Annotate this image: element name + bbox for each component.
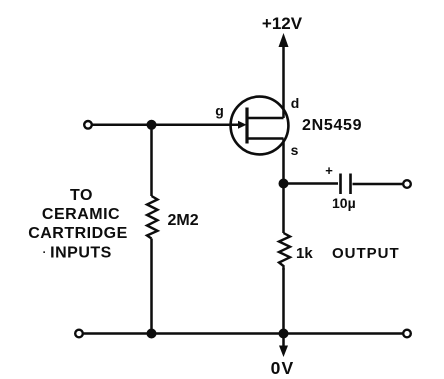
wire gate input (93, 124, 231, 127)
terminal output (403, 180, 411, 188)
wire drain vertical to +12V (282, 44, 285, 118)
wire R2 to bottom rail (282, 268, 285, 334)
terminal input left (84, 121, 92, 129)
svg-text:g: g (215, 103, 224, 119)
junction gate node (147, 120, 157, 130)
svg-text:2M2: 2M2 (168, 212, 199, 229)
svg-text:TO: TO (70, 187, 93, 204)
junction rail right (279, 329, 289, 339)
svg-text:INPUTS: INPUTS (50, 245, 112, 262)
svg-text:0V: 0V (271, 358, 295, 378)
svg-text:10µ: 10µ (332, 195, 356, 211)
svg-text:·: · (43, 247, 47, 259)
svg-text:CARTRIDGE: CARTRIDGE (28, 225, 128, 242)
wire bottom rail (84, 332, 404, 335)
transistor Q1 2N5459 (200, 97, 288, 155)
svg-text:+12V: +12V (262, 14, 303, 33)
svg-text:CERAMIC: CERAMIC (42, 206, 120, 223)
svg-text:+: + (325, 163, 333, 178)
wire R1 to bottom rail (150, 239, 153, 334)
svg-text:d: d (291, 95, 300, 111)
label TO CERAMIC CARTRIDGE INPUTS (28, 187, 128, 262)
junction source node (279, 179, 289, 189)
resistor R1 2M2 (147, 196, 158, 239)
capacitor C1 10µ (341, 174, 351, 195)
wire C1 to output terminal (353, 183, 404, 186)
terminal bottom right (403, 330, 411, 338)
svg-text:OUTPUT: OUTPUT (332, 245, 400, 262)
svg-text:s: s (291, 142, 299, 158)
power +12V arrow (279, 33, 289, 47)
ground 0V arrow (282, 338, 285, 347)
svg-text:2N5459: 2N5459 (302, 117, 362, 134)
wire source node to C1 (284, 182, 339, 185)
svg-text:1k: 1k (296, 245, 313, 262)
resistor R2 1k (279, 233, 290, 270)
terminal bottom left (75, 330, 83, 338)
wire gate node to R1 (150, 125, 153, 196)
wire source vertical (282, 139, 285, 234)
junction rail left (147, 329, 157, 339)
